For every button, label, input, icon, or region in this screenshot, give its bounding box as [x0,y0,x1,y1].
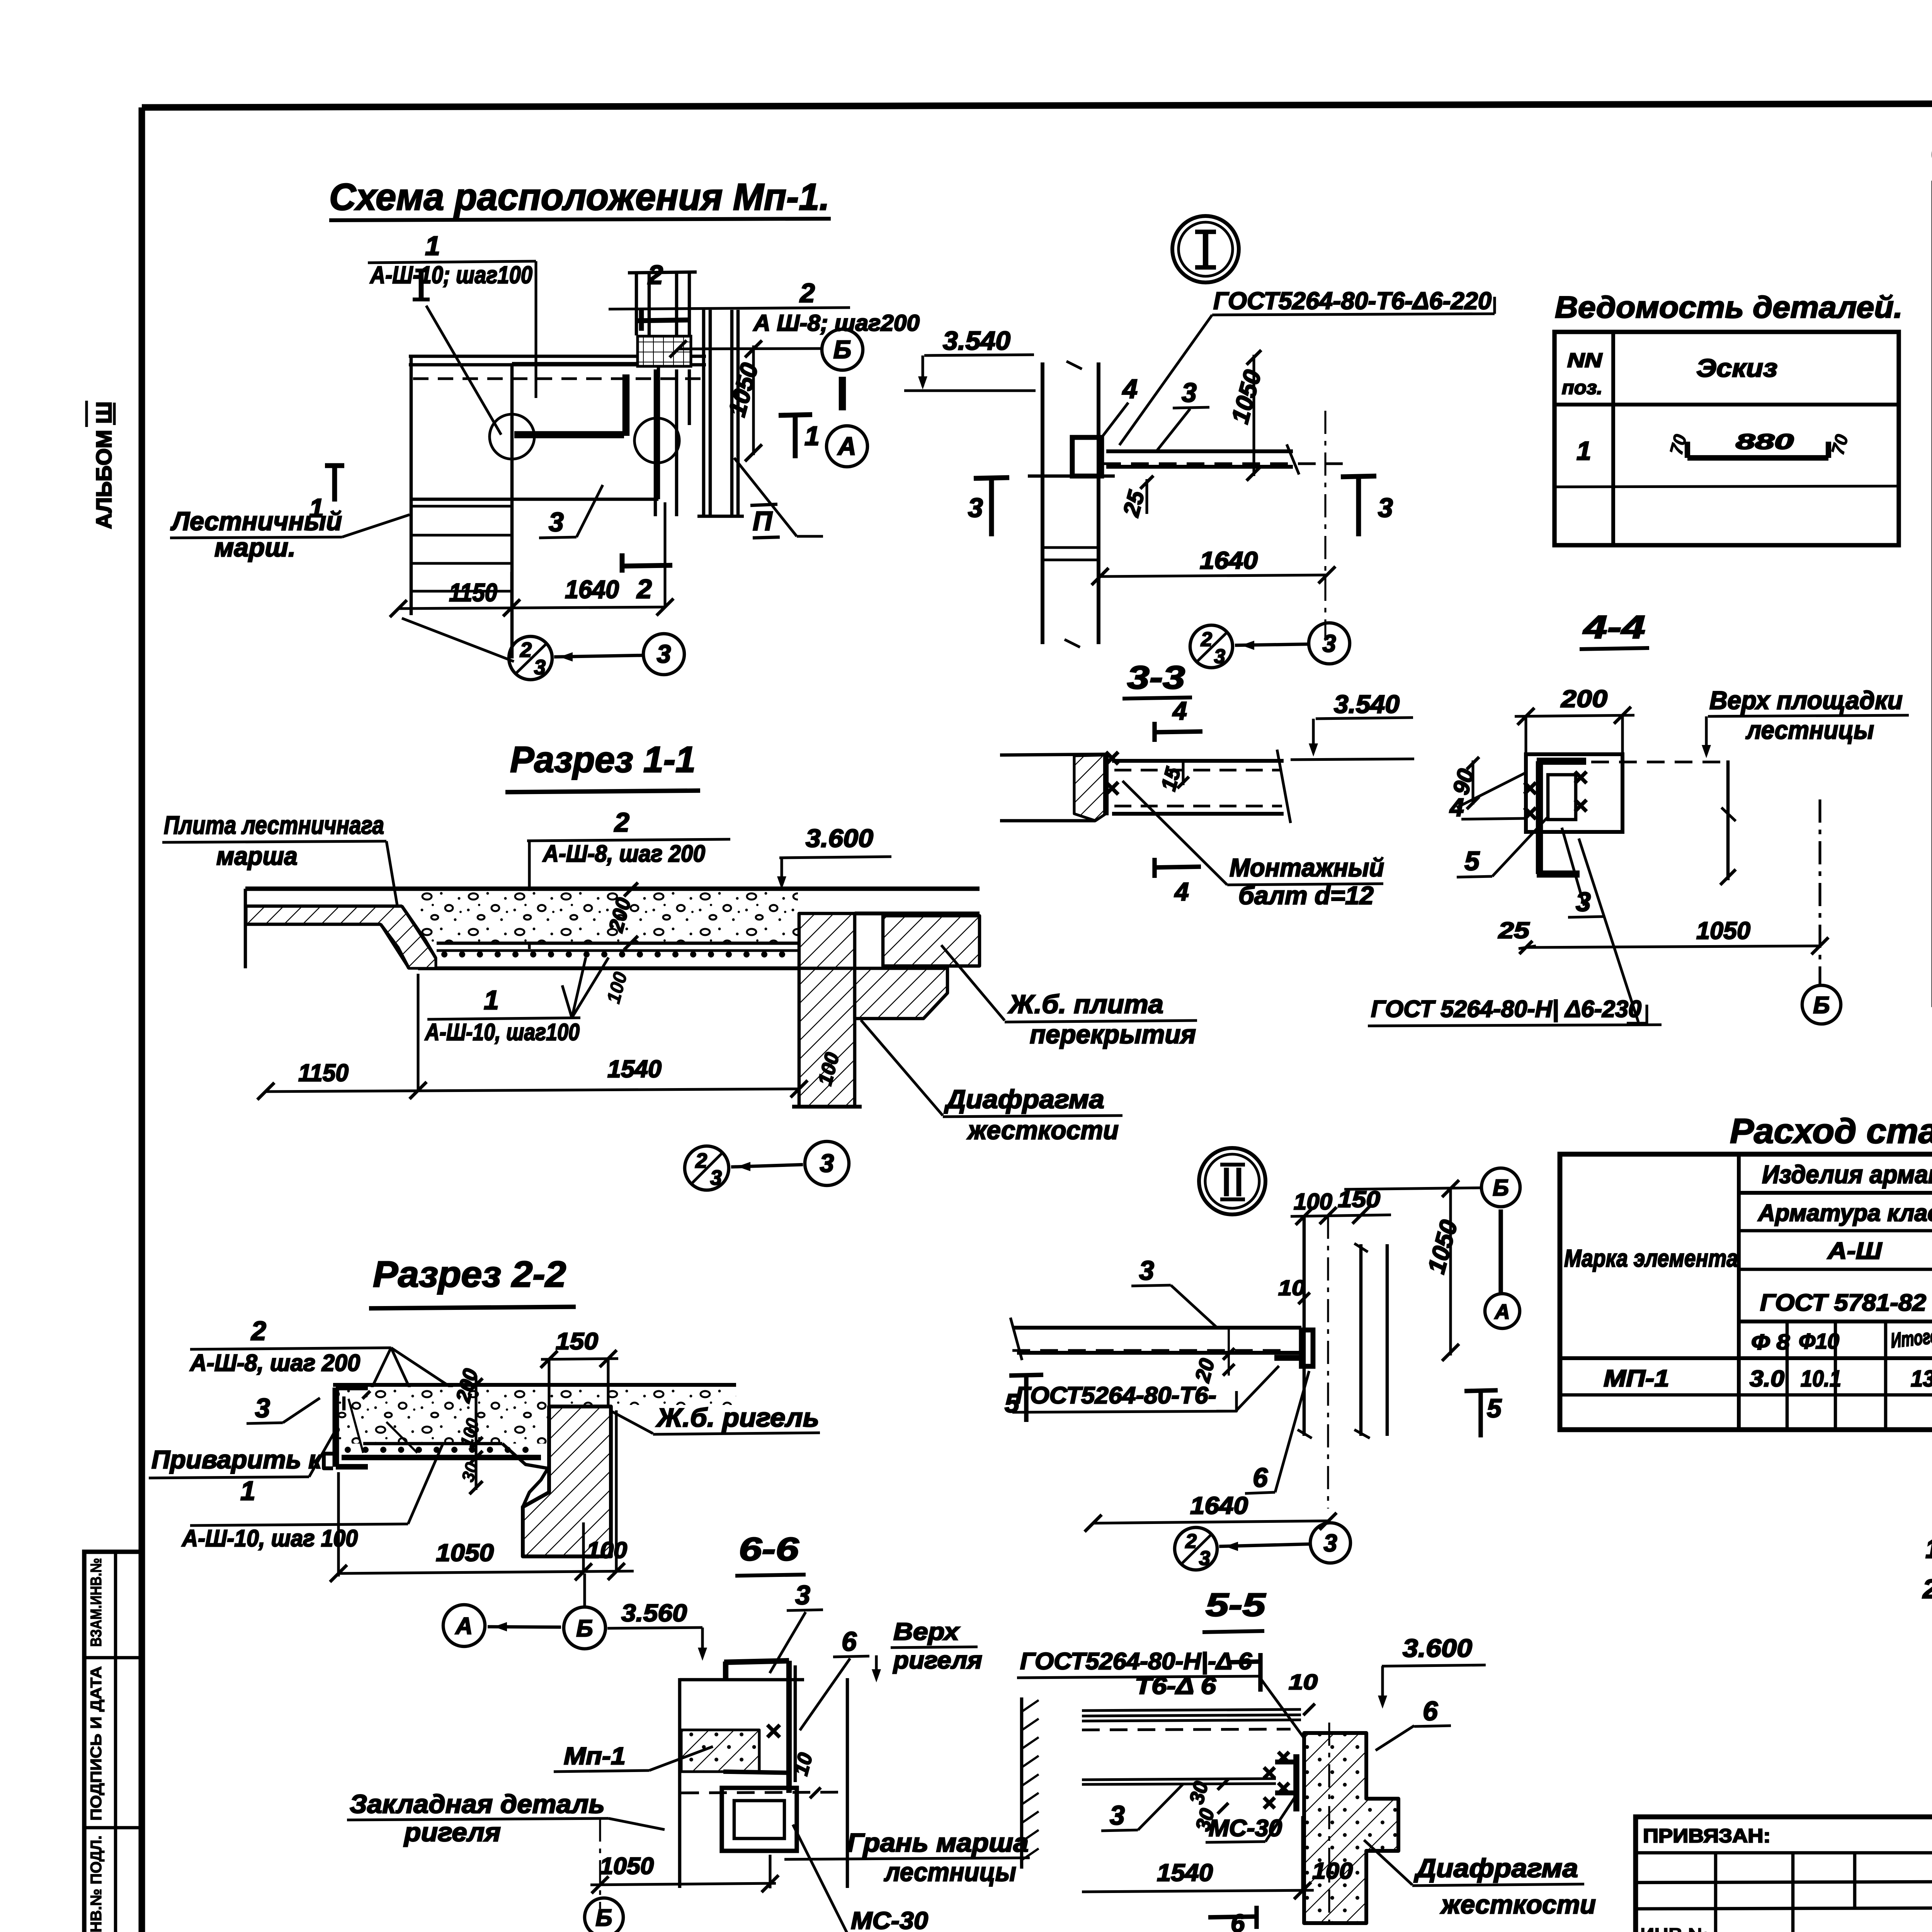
svg-text:МС-30: МС-30 [1209,1815,1282,1841]
svg-text:Ф 8: Ф 8 [1751,1330,1790,1354]
6-6 channel item 3 [723,1661,795,1793]
section 5-5 title [1202,1587,1266,1632]
svg-text:3.540: 3.540 [1334,690,1400,718]
raskhod data row MP-1 [1604,1365,1932,1391]
label 3 plan [539,485,603,538]
svg-text:Верх площадки: Верх площадки [1709,686,1903,714]
svg-text:4: 4 [1122,374,1138,404]
dim 1050 schema [723,340,764,461]
5-5 dim 1540 [1082,1816,1314,1899]
svg-text:2: 2 [1185,1530,1197,1553]
svg-text:Лестничный: Лестничный [170,507,342,536]
section 6-6 title [735,1531,806,1576]
schema title [329,176,831,220]
1-1 floor slab right [855,913,980,966]
svg-text:3: 3 [968,493,983,523]
svg-text:Арматура класса: Арматура класса [1757,1200,1932,1226]
svg-text:100: 100 [1294,1189,1332,1214]
svg-text:Плита лестничнага: Плита лестничнага [164,811,384,839]
3-3 beam plate [1112,750,1291,823]
svg-text:А-Ш-8, шаг 200: А-Ш-8, шаг 200 [542,840,705,867]
2-2 label zhb rigel [610,1403,820,1434]
svg-text:4: 4 [1449,793,1464,821]
3-3 stair plate left [1000,753,1106,821]
section mark 2 top [637,260,689,331]
2-2 rebar dots [345,1447,529,1453]
4-4 right edge line [1720,760,1736,885]
svg-text:1: 1 [484,985,499,1015]
svg-text:Б: Б [595,1905,612,1931]
left stamp strip box [84,1552,141,1932]
5-5 wall diaphragm hatched [1304,1723,1398,1930]
4-4 dim 1050 [1526,917,1828,954]
svg-text:3: 3 [820,1149,834,1177]
svg-text:1640: 1640 [565,575,619,604]
6-6 label verh rigelya [872,1618,982,1682]
II section mark 5 left [1005,1375,1043,1422]
4-4 weld x marks [1524,772,1587,819]
node II label [734,458,823,538]
svg-text:880: 880 [1736,429,1794,454]
svg-text:Расход стали на один элеме: Расход стали на один элемент, кГ [1730,1112,1932,1151]
svg-text:Итого: Итого [1889,1324,1932,1352]
svg-text:25: 25 [1498,918,1530,943]
section mark 2 bottom [622,553,672,604]
plan node ring right [634,418,679,463]
svg-text:1050: 1050 [1696,917,1750,944]
svg-text:Мп-1: Мп-1 [564,1743,626,1770]
detail I dim 1640 [1092,547,1335,585]
detail I dim 1050 [1226,350,1267,481]
svg-text:марш.: марш. [214,533,296,562]
note 2 svarka [1922,1574,1932,1604]
svg-text:А-Ш-10, шаг100: А-Ш-10, шаг100 [424,1019,580,1045]
2-2 left channel [336,1388,370,1467]
label lestnichny marsh [170,507,410,562]
vedomost row 1 pos [1577,436,1591,466]
6-6 label MP-1 [554,1743,713,1772]
svg-text:2: 2 [799,278,815,308]
II dim 1640 [1085,1492,1337,1532]
detail I beam plate [1103,444,1343,474]
II embedded plate at wall [1274,1330,1313,1366]
svg-text:Б: Б [833,335,852,364]
5-5 embedded plates welds [1264,1752,1296,1811]
plan landing slab outline [512,364,658,499]
raskhod headers top [1564,1158,1932,1316]
axis circle A [827,377,867,467]
svg-text:Разрез 2-2: Разрез 2-2 [373,1254,566,1295]
5-5 label 6 right [1376,1696,1451,1750]
svg-text:1150: 1150 [298,1060,349,1087]
svg-text:П: П [753,506,773,536]
svg-text:1. МС-30 см. серию 1.020-1/83,: 1. МС-30 см. серию 1.020-1/83, Вып. 7-1 … [1925,1534,1932,1564]
4-4 axis circle B [1802,985,1841,1024]
svg-text:1540: 1540 [607,1056,662,1083]
svg-text:5-5: 5-5 [1206,1587,1266,1623]
svg-text:5: 5 [1464,846,1480,876]
2-2 mesh bold bar [342,1455,541,1460]
2-2 label rebar 1 [181,1430,449,1551]
svg-text:1640: 1640 [1200,547,1258,574]
svg-text:А-Ш: А-Ш [1827,1238,1883,1264]
detail I label 3 [1157,378,1209,450]
svg-text:4: 4 [1172,696,1187,725]
svg-text:ригеля: ригеля [893,1647,982,1674]
section 2-2 title [369,1254,576,1308]
svg-text:1: 1 [425,231,440,261]
svg-text:3.600: 3.600 [1403,1634,1472,1662]
plan wall top column [628,272,697,366]
6-6 label zakladnaya detal rigelya [347,1789,719,1847]
vedomost headers [1562,349,1777,398]
vedomost table grid [1554,332,1899,545]
detail I ring [1172,216,1239,282]
plan wall lower stub [655,369,689,516]
svg-text:2: 2 [636,574,652,604]
label rebar 1 A-III-10 [368,231,536,398]
II top line to axis B [1344,1180,1481,1197]
4-4 outer box [1526,754,1622,832]
2-2 rebar fan lines [349,1399,417,1453]
raskhod headers sub [1751,1322,1932,1354]
II view marker 2/3 to 3 [1175,1523,1350,1570]
svg-text:Диафрагма: Диафрагма [1414,1854,1578,1883]
svg-text:3.0: 3.0 [1750,1366,1784,1391]
svg-text:Ж.б. плита: Ж.б. плита [1008,990,1163,1019]
6-6 axis circles A B with 3.560 [443,1573,707,1661]
detail I view marker 2/3 to 3 [1190,623,1350,668]
svg-text:ПОДПИСЬ И ДАТА: ПОДПИСЬ И ДАТА [88,1666,105,1821]
detail I axis dashdot [1324,411,1326,641]
svg-text:ИНВ.№: ИНВ.№ [1640,1924,1710,1932]
svg-text:6: 6 [1231,1909,1245,1932]
3-3 section mark 4 bottom [1155,858,1201,906]
5-5 section mark 6 top [1229,1653,1260,1692]
II dim 1050 vertical [1423,1189,1463,1361]
II beam plate [1010,1318,1301,1360]
3-3 label montazhny bolt [1122,781,1384,910]
2-2 label privarit k [149,1428,337,1478]
plan wall axis B top lines [409,356,706,379]
1-1 label rebar 2 [527,807,730,949]
svg-text:поз.: поз. [1562,377,1602,398]
1-1 label rebar 1 [424,957,609,1045]
5-5 dim 100 [1312,1858,1353,1884]
II dim 10 [1278,1276,1310,1304]
svg-text:ГОСТ5264-80-Т6-: ГОСТ5264-80-Т6- [1015,1382,1216,1408]
svg-text:3: 3 [255,1393,270,1423]
svg-text:Эскиз: Эскиз [1696,354,1777,382]
section 3-3 title [1122,659,1192,699]
svg-text:3: 3 [657,639,671,668]
svg-text:3: 3 [1322,630,1336,657]
svg-text:Б: Б [576,1615,593,1641]
1-1 dim 200 thickness [604,883,638,950]
svg-text:100: 100 [1312,1858,1353,1884]
4-4 dim 90 and label 4 [1448,757,1526,821]
schema bottom dims 1150 1640 [390,502,673,617]
schema view marker 2/3 to 3 [509,634,684,680]
svg-text:6: 6 [1423,1696,1438,1726]
svg-text:лестницы: лестницы [1745,716,1874,744]
svg-text:5: 5 [1005,1389,1020,1418]
1-1 dim 100 thickness [603,970,631,1006]
svg-text:3: 3 [1139,1255,1154,1286]
svg-text:3: 3 [1214,645,1225,668]
plan node ring left [490,414,534,459]
svg-text:NN: NN [1567,349,1603,372]
5-5 dims 30 30 [1185,1779,1228,1833]
axis circle B [670,329,863,370]
svg-text:2. Сварку производить электр: 2. Сварку производить электродами типа Э… [1922,1574,1932,1604]
vedomost sketch channel 880 [1665,429,1852,458]
svg-text:Монтажный: Монтажный [1230,853,1384,882]
plan wall right double lines [697,310,744,516]
svg-text:Ж.б. ригель: Ж.б. ригель [656,1403,819,1432]
6-6 label MS-30 [793,1825,928,1932]
svg-text:10.1: 10.1 [1801,1366,1841,1391]
6-6 dashed line [681,1792,846,1793]
2-2 label rebar 2 [189,1316,483,1411]
svg-text:ПРИВЯЗАН:: ПРИВЯЗАН: [1643,1825,1770,1847]
5-5 slab lines [1082,1709,1301,1784]
svg-text:жесткости: жесткости [966,1116,1119,1145]
svg-text:3: 3 [534,656,546,679]
level mark 3.540 detail I [904,326,1036,391]
svg-text:3: 3 [1199,1547,1210,1570]
svg-text:Приварить к: Приварить к [151,1445,323,1474]
svg-text:4: 4 [1174,877,1189,906]
raskhod title [1730,1112,1932,1151]
svg-text:3: 3 [710,1166,722,1189]
5-5 label 3 [1101,1784,1183,1831]
1-1 stair plate hatched [246,906,436,968]
3-3 section mark 4 top [1155,696,1202,742]
section 4-4 title [1580,609,1649,649]
6-6 concrete MP-1 [681,1730,759,1772]
svg-text:А: А [1494,1300,1510,1323]
svg-text:Изделия арматурные: Изделия арматурные [1762,1160,1932,1189]
plan stair flight outline [402,355,514,662]
5-5 weld label GOST5264-80-N1 [1017,1648,1321,1762]
svg-text:10: 10 [1289,1670,1318,1694]
4-4 label verh ploshchadki [1702,686,1909,758]
section mark 1 right [779,415,820,458]
section 1-1 title [505,739,700,792]
4-4 dashed top line [1591,760,1720,763]
svg-text:3: 3 [1323,1530,1337,1557]
6-6 label 6 [800,1626,869,1730]
stamp strip label podpis data [88,1666,105,1821]
4-4 channel thick [1537,761,1586,874]
svg-text:МП-1: МП-1 [1604,1365,1669,1391]
svg-text:А-Ш-10; шаг100: А-Ш-10; шаг100 [369,262,532,289]
6-6 label gran marsha lestnitsy [784,1828,1030,1887]
raskhod table grid [1560,1154,1932,1430]
weld label GOST5264-80-T6 [1119,287,1495,445]
I-beam symbol pos1 [413,270,501,435]
5-5 section mark 6 bottom [1208,1906,1257,1932]
II label 6 [1245,1371,1309,1493]
stamp strip label inv podl [88,1835,105,1932]
1-1 label zhb plita perekrytiya [941,945,1197,1049]
3-3 level 3.540 [1291,690,1414,760]
II label 3 [1131,1255,1218,1328]
2-2 rigel beam hatched [523,1406,611,1556]
II weld label GOST5264-80-T6 [1012,1366,1279,1412]
detail II ring [1199,1148,1265,1214]
detail I section mark 3 right [1341,476,1393,536]
svg-text:А-Ш-8, шаг 200: А-Ш-8, шаг 200 [189,1350,360,1376]
svg-text:3-3: 3-3 [1127,659,1185,696]
privyazan box [1636,1817,1932,1932]
svg-text:3: 3 [1182,378,1197,408]
svg-text:100: 100 [587,1537,627,1563]
detail I wall lines [1028,361,1115,647]
5-5 label MS-30 [1206,1797,1295,1842]
svg-text:Разрез 1-1: Разрез 1-1 [510,739,696,780]
4-4 label 5 [1457,816,1549,877]
5-5 dim 10 [1289,1670,1318,1715]
svg-text:Схема расположения Мп-1.: Схема расположения Мп-1. [329,176,830,218]
4-4 axis dashdot [1818,799,1821,985]
section mark 1 left [309,466,344,523]
svg-text:ГОСТ 5781-82: ГОСТ 5781-82 [1760,1289,1926,1316]
svg-text:2: 2 [520,638,532,662]
svg-text:АЛЬБОМ Ш: АЛЬБОМ Ш [92,401,116,529]
svg-text:3.600: 3.600 [806,824,873,852]
svg-text:марша: марша [216,842,298,870]
svg-text:Марка элемента: Марка элемента [1564,1245,1738,1272]
svg-text:1: 1 [1577,436,1591,466]
spec table title [1931,134,1932,171]
II axis circle A [1485,1209,1520,1328]
svg-text:А-Ш-10, шаг 100: А-Ш-10, шаг 100 [181,1525,358,1551]
1-1 landing slab concrete [245,889,980,968]
svg-text:6-6: 6-6 [739,1531,799,1567]
4-4 inner plate [1548,775,1576,820]
plan rebar bold bars [514,374,626,436]
svg-text:лестницы: лестницы [884,1857,1016,1887]
svg-text:А: А [837,432,856,460]
svg-text:13.1: 13.1 [1911,1366,1932,1391]
svg-text:Ведомость деталей.: Ведомость деталей. [1555,290,1903,324]
svg-text:ГОСТ5264-80-Н|-Δ 6: ГОСТ5264-80-Н|-Δ 6 [1020,1648,1252,1674]
stamp strip label vzam inv [88,1558,105,1647]
detail I section mark 3 left [968,478,1009,536]
svg-text:1150: 1150 [449,578,497,607]
svg-text:А Ш-8; шаг200: А Ш-8; шаг200 [753,310,920,336]
svg-text:3: 3 [795,1580,810,1610]
2-2 slab concrete [333,1385,638,1468]
svg-text:1: 1 [804,421,820,451]
svg-text:ГОСТ5264-80-Т6-Δ6-220: ГОСТ5264-80-Т6-Δ6-220 [1213,287,1492,315]
II dim 20 [1190,1329,1235,1385]
svg-text:5: 5 [1487,1394,1502,1423]
svg-text:ИНВ.№ ПОДЛ.: ИНВ.№ ПОДЛ. [88,1835,105,1932]
svg-text:3: 3 [1110,1800,1125,1830]
svg-text:Б: Б [1813,992,1830,1018]
1-1 corbel [855,968,947,1019]
detail I embedded plate [1072,437,1102,476]
label rebar 2 A-III-8 [609,278,920,336]
svg-text:Ф10: Ф10 [1799,1329,1839,1353]
4-4 dim 25 [1498,918,1536,954]
svg-text:Закладная деталь: Закладная деталь [350,1789,605,1819]
svg-text:Верх: Верх [893,1618,960,1645]
1-1 rebar dots row [441,951,785,957]
svg-text:ГОСТ 5264-80-Н| Δ6-230: ГОСТ 5264-80-Н| Δ6-230 [1371,996,1641,1022]
svg-text:2: 2 [614,807,629,837]
svg-text:200: 200 [1561,685,1607,713]
6-6 label 3 [770,1580,823,1673]
detail I label 4 [1055,262,1138,440]
II wall lines [1298,1216,1387,1509]
vedomost title [1555,290,1903,324]
svg-text:балт d=12: балт d=12 [1238,881,1374,910]
6-6 dim 1050 [590,1853,779,1893]
6-6 axis circle B bottom [585,1898,623,1932]
2-2 slab top band right [548,1385,736,1406]
svg-text:10: 10 [1278,1276,1305,1300]
5-5 level 3.600 [1378,1634,1486,1709]
4-4 dim 200 [1515,685,1634,753]
detail I dim 25 [1118,476,1153,519]
svg-text:2: 2 [1201,628,1212,651]
3-3 weld marks [1106,752,1118,794]
6-6 box outline [680,1678,847,1888]
2-2 bottom dims 1050 100 [330,1410,634,1582]
6-6 weld x [767,1725,780,1737]
svg-text:6: 6 [842,1626,857,1656]
II dims 100 150 [1291,1187,1391,1225]
svg-text:ригеля: ригеля [403,1818,501,1847]
3-3 dim 15 [1157,762,1189,793]
album III vertical label [87,401,116,529]
svg-text:3.540: 3.540 [943,326,1010,355]
4-4 weld label GOST 5264-80-N1 [1368,838,1662,1026]
svg-text:3.560: 3.560 [621,1600,687,1627]
1-1 bottom dims 1150 1540 100 [257,974,844,1100]
6-6 closed detail MS-30 [722,1788,797,1851]
svg-text:Грань марша: Грань марша [847,1828,1029,1857]
6-6 axis dashdot below [599,1818,601,1909]
svg-text:1050: 1050 [600,1853,654,1879]
svg-text:2: 2 [250,1316,266,1346]
1-1 label diafragma zhestkosti [861,1020,1122,1145]
2-2 vertical dims 200 100 30 [452,1366,483,1494]
svg-text:МС-30: МС-30 [851,1907,928,1932]
1-1 view marker 2/3 to 3 [685,1141,849,1190]
1-1 level 3.600 [777,824,891,889]
svg-text:6: 6 [1253,1463,1268,1493]
svg-text:1540: 1540 [1157,1859,1213,1886]
svg-text:1050: 1050 [436,1539,494,1566]
svg-text:перекрытия: перекрытия [1030,1020,1196,1049]
svg-text:3: 3 [549,507,564,537]
svg-text:3: 3 [1378,493,1393,523]
note 1 MS-30 [1925,1534,1932,1564]
II section mark 5 right [1464,1390,1502,1437]
svg-text:1640: 1640 [1190,1492,1248,1519]
6-6 dim 10 near weld [790,1750,821,1798]
4-4 label 3 [1562,828,1604,917]
1-1 mesh line [437,949,799,952]
2-2 label 3 [247,1393,320,1423]
II axis circle B [1481,1168,1520,1207]
1-1 label plita lestnichnogo marsha [162,811,402,935]
